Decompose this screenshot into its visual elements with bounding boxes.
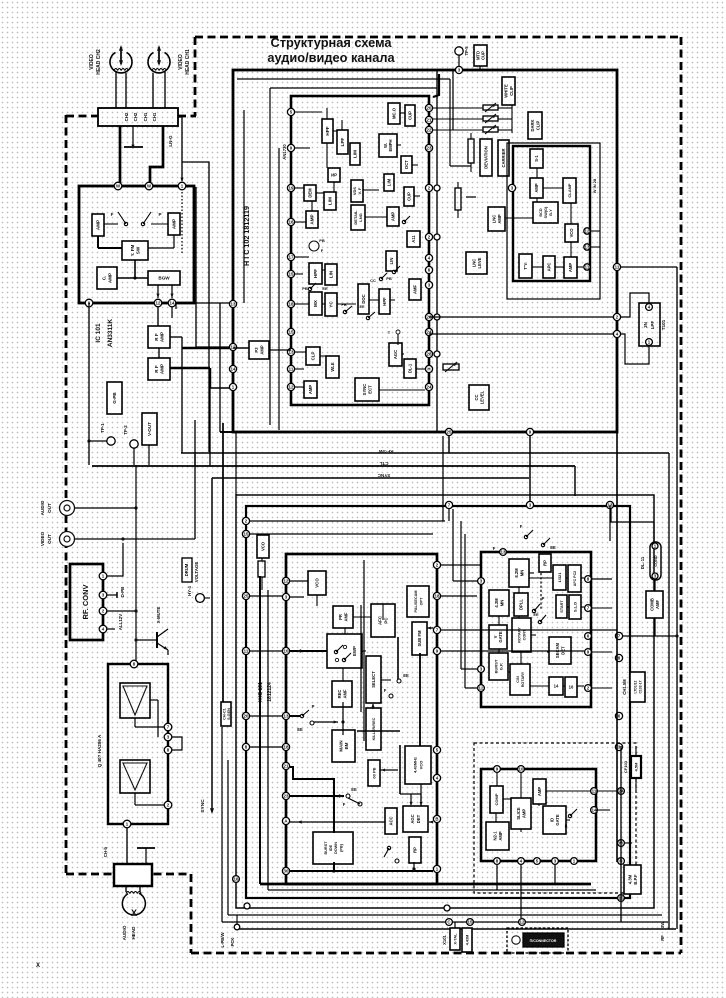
svg-text:18: 18: [284, 745, 289, 750]
svg-text:AMP: AMP: [537, 787, 542, 797]
svg-text:DL. 11: DL. 11: [640, 556, 645, 569]
svg-text:AMP: AMP: [534, 183, 539, 193]
svg-text:13: 13: [284, 714, 289, 719]
svg-text:12: 12: [520, 920, 525, 925]
svg-text:ИР: ИР: [331, 173, 337, 178]
svg-text:AMP: AMP: [259, 345, 264, 355]
svg-text:REC: REC: [337, 690, 342, 699]
svg-text:GATE: GATE: [498, 631, 503, 643]
svg-text:Y. FM: Y. FM: [130, 244, 135, 256]
svg-text:AMP: AMP: [498, 831, 503, 841]
svg-text:PR: PR: [338, 614, 343, 620]
svg-text:AMF: AMF: [343, 612, 348, 622]
svg-text:P: P: [158, 212, 161, 217]
svg-text:16: 16: [234, 877, 239, 882]
svg-text:23: 23: [284, 794, 289, 799]
svg-text:TP-5: TP-5: [464, 46, 469, 56]
svg-text:HEAD CH2: HEAD CH2: [96, 49, 102, 75]
svg-text:23: 23: [427, 146, 432, 151]
svg-text:VIDEO: VIDEO: [178, 54, 184, 70]
svg-text:CLP: CLP: [311, 352, 316, 361]
svg-text:AMP: AMP: [310, 214, 315, 224]
svg-text:IC 101: IC 101: [95, 323, 102, 343]
svg-text:COMB: COMB: [649, 598, 654, 611]
svg-text:21: 21: [427, 118, 432, 123]
svg-text:P3: P3: [254, 347, 259, 353]
svg-text:SW(G): SW(G): [544, 206, 548, 218]
svg-text:13: 13: [231, 302, 236, 307]
svg-text:аудио/видео канала: аудио/видео канала: [267, 50, 395, 65]
svg-text:VCO: VCO: [261, 541, 266, 551]
svg-text:SUB FM: SUB FM: [417, 630, 422, 647]
svg-text:KILLER/REC: KILLER/REC: [372, 717, 376, 740]
svg-text:CH-b: CH-b: [103, 846, 108, 857]
svg-text:C.: C.: [102, 276, 107, 281]
svg-text:13: 13: [501, 550, 506, 555]
svg-text:LIN: LIN: [329, 270, 334, 278]
svg-text:HPF: HPF: [313, 269, 318, 278]
svg-text:F: F: [493, 546, 496, 551]
svg-text:H: H: [427, 367, 430, 372]
svg-text:11: 11: [585, 265, 590, 270]
svg-text:CTL: CTL: [379, 461, 388, 466]
svg-text:LIM: LIM: [387, 178, 392, 186]
svg-text:HEAD CH1: HEAD CH1: [185, 49, 191, 75]
svg-text:MN: MN: [499, 600, 504, 607]
svg-text:VOLTAGE: VOLTAGE: [194, 562, 199, 583]
svg-text:G.P.: G.P.: [499, 663, 504, 671]
svg-text:CH1.5M: CH1.5M: [622, 679, 627, 695]
svg-text:CLIP: CLIP: [535, 121, 540, 131]
svg-text:LIM: LIM: [328, 197, 333, 205]
svg-text:V-OUT: V-OUT: [147, 422, 152, 436]
svg-text:VIDEO: VIDEO: [40, 531, 45, 546]
svg-text:DARK: DARK: [530, 119, 535, 131]
svg-text:16: 16: [289, 220, 294, 225]
svg-text:AMP: AMP: [159, 332, 164, 342]
svg-text:CUP: CUP: [481, 51, 486, 60]
svg-text:00 PB: 00 PB: [372, 767, 377, 778]
svg-text:HY-4: HY-4: [187, 586, 192, 596]
svg-text:PB: PB: [319, 238, 325, 243]
svg-text:T"n: T"n: [523, 262, 528, 270]
svg-text:AMF: AMF: [342, 689, 347, 699]
svg-text:20: 20: [244, 714, 249, 719]
svg-text:CH1: CH1: [152, 112, 157, 121]
svg-text:VCO: VCO: [569, 228, 574, 238]
svg-text:S.GEN: S.GEN: [227, 708, 231, 720]
svg-text:WLE: WLE: [330, 362, 335, 372]
svg-text:15: 15: [289, 330, 294, 335]
svg-text:W IN 28: W IN 28: [592, 178, 597, 193]
svg-text:12: 12: [156, 301, 161, 306]
svg-text:X101: X101: [442, 934, 447, 944]
svg-text:12: 12: [479, 686, 484, 691]
svg-text:LEVEL: LEVEL: [479, 390, 484, 404]
svg-text:ECT: ECT: [367, 385, 372, 394]
svg-text:AMP: AMP: [108, 273, 113, 283]
svg-text:F: F: [384, 688, 387, 693]
svg-text:AUDIO: AUDIO: [40, 500, 45, 515]
svg-text:COMP: COMP: [494, 793, 499, 805]
svg-text:CH1: CH1: [143, 112, 148, 121]
svg-text:VCO: VCO: [419, 761, 424, 770]
svg-text:1/321: 1/321: [557, 572, 562, 583]
svg-text:AFC: AFC: [378, 615, 383, 625]
svg-text:BGW: BGW: [158, 276, 170, 281]
svg-text:SLICE: SLICE: [516, 807, 521, 820]
svg-text:OPT: OPT: [419, 597, 423, 605]
svg-text:F: F: [321, 248, 324, 253]
svg-text:CF103: CF103: [623, 760, 628, 773]
svg-text:SW: SW: [135, 246, 140, 254]
svg-text:14: 14: [554, 684, 559, 689]
svg-text:10: 10: [284, 649, 289, 654]
svg-text:22: 22: [427, 128, 432, 133]
svg-text:15: 15: [289, 272, 294, 277]
svg-text:EMPH: EMPH: [388, 139, 393, 151]
svg-text:LNC: LNC: [471, 259, 476, 268]
svg-text:CLIP: CLIP: [509, 86, 514, 96]
svg-text:EE: EE: [322, 286, 328, 291]
svg-text:DPLL: DPLL: [519, 599, 524, 610]
svg-text:Структурная схема: Структурная схема: [270, 35, 392, 50]
svg-text:4.3M: 4.3M: [627, 874, 632, 884]
svg-text:CH2: CH2: [124, 112, 129, 121]
svg-text:SYNC: SYNC: [377, 473, 390, 478]
svg-text:OUT: OUT: [47, 503, 52, 513]
svg-text:LIM: LIM: [353, 150, 358, 158]
svg-text:CUP: CUP: [408, 111, 413, 120]
svg-text:BURST: BURST: [324, 841, 328, 855]
svg-text:IDE: IDE: [329, 844, 333, 851]
svg-text:F: F: [343, 802, 346, 807]
svg-text:15: 15: [468, 920, 473, 925]
svg-text:X-TAL: X-TAL: [454, 933, 458, 945]
svg-text:12: 12: [231, 345, 236, 350]
svg-text:CUP: CUP: [407, 192, 412, 201]
svg-text:S-1: S-1: [534, 155, 539, 162]
svg-text:DOC: DOC: [361, 294, 366, 303]
svg-text:CH2: CH2: [133, 112, 138, 121]
svg-text:MAIN: MAIN: [338, 740, 343, 751]
svg-text:SELECT: SELECT: [371, 671, 376, 688]
svg-text:X: X: [131, 908, 137, 918]
svg-text:PB: PB: [302, 286, 308, 291]
svg-text:15: 15: [244, 532, 249, 537]
svg-text:T101: T101: [661, 319, 666, 330]
svg-text:ROTARY: ROTARY: [521, 671, 525, 687]
svg-text:OUT: OUT: [47, 534, 52, 544]
svg-text:C132-17: C132-17: [639, 680, 643, 693]
svg-text:11: 11: [615, 265, 620, 270]
svg-text:DET: DET: [416, 814, 421, 823]
svg-text:DEVIATION: DEVIATION: [484, 146, 489, 169]
svg-text:YC: YC: [329, 301, 334, 308]
svg-text:DRUM: DRUM: [184, 563, 189, 576]
svg-text:EE: EE: [403, 673, 409, 678]
svg-text:DL-1: DL-1: [408, 363, 413, 373]
svg-text:F: F: [520, 524, 523, 529]
svg-text:PAL/SECAM: PAL/SECAM: [414, 590, 418, 612]
svg-text:AMP: AMP: [568, 263, 573, 273]
svg-text:14: 14: [231, 367, 236, 372]
svg-text:START: START: [560, 600, 564, 613]
svg-text:HEAD: HEAD: [131, 926, 136, 940]
svg-text:T: T: [388, 330, 391, 335]
svg-text:COND: COND: [654, 555, 658, 566]
svg-text:12: 12: [585, 229, 590, 234]
svg-text:LNC: LNC: [491, 215, 496, 224]
svg-text:4.43M: 4.43M: [466, 935, 470, 946]
svg-text:F: F: [111, 212, 114, 217]
svg-text:R F: R F: [154, 333, 159, 341]
svg-text:GATE: GATE: [555, 814, 560, 826]
svg-text:AFC PC2: AFC PC2: [573, 571, 577, 586]
svg-text:AMF: AMF: [413, 285, 418, 295]
svg-text:WHITE: WHITE: [503, 84, 508, 98]
svg-text:Q 40? HA286 A: Q 40? HA286 A: [97, 734, 102, 767]
svg-text:LNG: LNG: [358, 213, 363, 221]
svg-text:24: 24: [427, 385, 432, 390]
svg-text:19: 19: [289, 186, 294, 191]
svg-text:12: 12: [289, 385, 294, 390]
svg-text:BCD: BCD: [539, 208, 543, 216]
svg-text:ROTARY: ROTARY: [518, 627, 522, 643]
svg-text:X: X: [36, 963, 40, 969]
svg-text:AMF: AMF: [655, 600, 660, 610]
svg-text:AN1730: AN1730: [282, 144, 287, 160]
svg-text:μ: μ: [565, 823, 568, 828]
svg-text:R F: R F: [154, 365, 159, 373]
svg-text:SECAM: SECAM: [555, 642, 560, 658]
svg-text:RF-SW: RF-SW: [378, 449, 394, 454]
svg-text:П/CONNECTOR: П/CONNECTOR: [530, 939, 557, 943]
svg-text:SYNC: SYNC: [200, 799, 206, 813]
svg-text:HPF: HPF: [382, 297, 387, 306]
svg-text:SYNC: SYNC: [362, 384, 367, 396]
svg-text:B: B: [435, 817, 438, 822]
svg-text:P: P: [312, 704, 315, 709]
svg-text:MN: MN: [519, 570, 524, 577]
svg-text:N2-1: N2-1: [492, 831, 497, 841]
svg-text:21: 21: [284, 764, 289, 769]
svg-text:(PB): (PB): [339, 843, 343, 852]
svg-text:20: 20: [427, 106, 432, 111]
svg-text:4.3M: 4.3M: [494, 598, 499, 608]
svg-text:H I C 102 1812119: H I C 102 1812119: [242, 206, 251, 266]
svg-text:TP-1: TP-1: [100, 423, 105, 433]
svg-text:AMP: AMP: [497, 214, 502, 224]
svg-text:H IC 101: H IC 101: [258, 682, 264, 702]
svg-text:10: 10: [519, 767, 524, 772]
svg-text:17: 17: [289, 255, 294, 260]
svg-text:CH-C1: CH-C1: [222, 708, 226, 720]
svg-text:P: P: [542, 596, 545, 601]
svg-text:EWP: EWP: [352, 646, 357, 656]
svg-text:12: 12: [284, 579, 289, 584]
svg-text:RF. CONV: RF. CONV: [81, 584, 90, 619]
svg-text:BM: BM: [344, 742, 349, 749]
svg-text:C/N: C/N: [516, 676, 520, 683]
svg-text:S.L.D: S.L.D: [573, 602, 578, 612]
svg-text:AMP: AMP: [96, 220, 101, 230]
svg-text:30: 30: [284, 869, 289, 874]
svg-text:LIN: LIN: [389, 258, 394, 265]
svg-text:RP: RP: [413, 847, 418, 853]
svg-text:AN3311K: AN3311K: [107, 319, 114, 347]
svg-text:CC: CC: [370, 278, 376, 283]
svg-text:A11: A11: [411, 235, 416, 243]
svg-text:16: 16: [569, 685, 574, 690]
svg-text:LEVE: LEVE: [477, 257, 482, 268]
svg-text:TP-2: TP-2: [123, 425, 128, 435]
svg-text:ID: ID: [549, 818, 554, 822]
svg-text:11: 11: [289, 367, 294, 372]
svg-text:4.5M: 4.5M: [634, 762, 639, 772]
svg-text:VCO: VCO: [315, 578, 320, 588]
svg-text:3N: 3N: [643, 322, 648, 328]
svg-text:LTD1/12: LTD1/12: [634, 680, 638, 693]
svg-text:CONT: CONT: [523, 629, 527, 640]
svg-text:LPF: LPF: [340, 137, 345, 146]
svg-text:28: 28: [427, 352, 432, 357]
svg-text:CC: CC: [474, 394, 479, 400]
svg-text:B.P.F: B.P.F: [633, 874, 638, 885]
svg-text:AMP: AMP: [391, 212, 396, 222]
svg-text:RP: RP: [543, 560, 548, 566]
svg-text:DCT: DCT: [404, 160, 409, 169]
svg-text:EE: EE: [550, 545, 556, 550]
svg-text:ACC: ACC: [389, 816, 394, 825]
svg-text:DEM: DEM: [308, 188, 313, 198]
svg-text:D-PB: D-PB: [120, 587, 125, 598]
svg-text:PB: PB: [386, 276, 392, 281]
svg-text:V. F: V. F: [357, 187, 362, 195]
svg-text:25: 25: [244, 594, 249, 599]
svg-text:25: 25: [447, 430, 452, 435]
svg-text:X-MUTE: X-MUTE: [156, 607, 161, 624]
svg-text:AMP: AMP: [159, 364, 164, 374]
svg-text:DOWN: DOWN: [334, 842, 338, 854]
svg-text:CLAMP: CLAMP: [567, 183, 572, 198]
svg-text:APC: APC: [547, 263, 552, 272]
svg-text:11: 11: [244, 649, 249, 654]
svg-text:AGC: AGC: [410, 814, 415, 823]
svg-text:VIDEO: VIDEO: [89, 54, 95, 70]
svg-text:AUDIO: AUDIO: [122, 925, 127, 940]
svg-text:AMP: AMP: [308, 385, 313, 395]
svg-text:L-PB/W: L-PB/W: [220, 933, 225, 948]
svg-text:3W: 3W: [660, 922, 665, 928]
svg-text:PC: PC: [384, 617, 389, 624]
svg-text:B-Y: B-Y: [549, 209, 553, 216]
svg-text:18: 18: [435, 594, 440, 599]
svg-text:LPF: LPF: [650, 321, 655, 330]
svg-text:RF: RF: [660, 935, 665, 941]
svg-text:HPF: HPF: [325, 126, 330, 135]
svg-text:AMP: AMP: [172, 219, 177, 229]
svg-text:EE: EE: [297, 727, 303, 732]
svg-text:EE: EE: [351, 787, 357, 792]
svg-text:AGC: AGC: [393, 350, 398, 359]
svg-text:18: 18: [289, 302, 294, 307]
svg-text:8.2M: 8.2M: [514, 568, 519, 578]
svg-text:MX: MX: [313, 299, 318, 307]
svg-text:ALL12V: ALL12V: [118, 614, 123, 630]
svg-text:AMP: AMP: [521, 809, 526, 819]
svg-text:CARRIER: CARRIER: [501, 148, 506, 167]
svg-text:4.43MHz: 4.43MHz: [413, 757, 418, 773]
svg-text:EE: EE: [359, 305, 365, 309]
svg-text:14: 14: [170, 301, 175, 306]
svg-text:13: 13: [585, 245, 590, 250]
svg-text:PCK: PCK: [230, 938, 235, 947]
svg-text:MC.O: MC.O: [392, 107, 397, 119]
svg-text:G-PB: G-PB: [112, 392, 117, 404]
svg-text:LN-G: LN-G: [168, 135, 173, 147]
svg-text:DET: DET: [560, 646, 565, 655]
